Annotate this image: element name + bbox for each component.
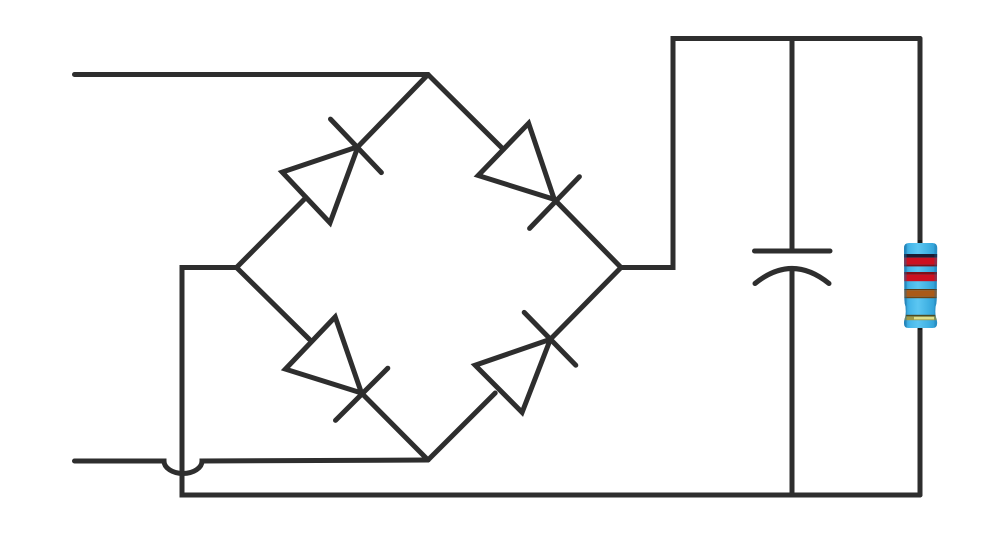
wire negative output: left vertex stub, down, bottom rail xyxy=(182,268,920,496)
wire resistor top lead xyxy=(918,39,923,247)
wire capacitor top lead xyxy=(790,39,795,251)
diode D2 (upper-right branch, anode at top vertex) xyxy=(478,123,579,228)
wire AC input bottom with hop xyxy=(75,460,429,474)
wire resistor bottom lead xyxy=(918,324,923,495)
wire AC input top xyxy=(75,72,429,77)
capacitor C1 xyxy=(755,251,831,284)
wire bridge edge top-left upper segment xyxy=(358,75,428,147)
diode D3 (lower-left branch, anode at left vertex) xyxy=(285,317,387,421)
wire bridge edge top-right lower segment xyxy=(554,199,621,267)
wire bridge edge bottom-right lower segment xyxy=(428,393,495,460)
wire positive output: right vertex stub, up, top rail xyxy=(621,39,920,268)
wire bridge edge bottom-left lower segment xyxy=(362,393,429,460)
wire capacitor bottom lead xyxy=(790,269,795,495)
diode D1 (upper-left branch, anode at left vertex) xyxy=(282,119,381,223)
wire bridge edge bottom-right upper segment xyxy=(550,268,621,340)
wire bridge edge top-left lower segment xyxy=(237,198,307,268)
wire bridge edge top-right upper segment xyxy=(428,75,503,150)
resistor R1 (blue body, bands red-red-brown gold) xyxy=(903,240,938,330)
wire bridge edge bottom-left upper segment xyxy=(237,268,310,340)
diode D4 (lower-right branch, anode at bottom vertex) xyxy=(475,312,576,412)
